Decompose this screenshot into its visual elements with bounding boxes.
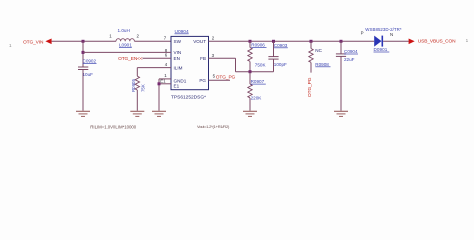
junction FB node (249, 70, 252, 73)
inductor L0901 (116, 28, 134, 48)
svg-text:7: 7 (164, 35, 167, 40)
svg-text:1: 1 (9, 43, 12, 48)
svg-text:L0901: L0901 (119, 43, 132, 48)
wire FB pin path (209, 58, 274, 71)
wire C0902 to ground (82, 70, 84, 111)
junction at input node (82, 40, 85, 43)
svg-text:1: 1 (109, 33, 112, 38)
note Vout formula (197, 124, 230, 129)
pin number 4 ILIM (165, 62, 168, 67)
pin number 7 SW (164, 35, 167, 40)
svg-text:OTG_VIN: OTG_VIN (23, 39, 44, 45)
svg-text:OTG_EN<<: OTG_EN<< (118, 56, 143, 62)
wire L0901 to SW pin (134, 40, 171, 42)
wire E1 pin (159, 83, 171, 85)
port USB_VBUS_CON (409, 39, 457, 45)
resistor R0905 (131, 76, 145, 92)
pin name P of D0901 (361, 31, 364, 36)
junction VOUT rail at C0903 (272, 40, 275, 43)
wire GND1 pin (159, 79, 171, 111)
svg-text:4: 4 (165, 62, 168, 67)
svg-text:C0903: C0903 (274, 43, 288, 48)
svg-text:100pF: 100pF (274, 62, 287, 67)
junction VOUT rail at C0904 (340, 40, 343, 43)
svg-text:N: N (390, 32, 393, 37)
IC U0904 TPS61252DSG boost converter (171, 29, 209, 101)
svg-text:E1: E1 (174, 83, 180, 88)
capacitor C0904 (336, 41, 358, 111)
svg-text:C0902: C0902 (83, 59, 97, 64)
diode D0901 (365, 27, 402, 52)
resistor R0908 (309, 41, 331, 72)
net label OTG_PG at PG pin (216, 74, 236, 80)
wire OTG_VIN to L0901 (52, 40, 116, 42)
svg-text:R0906: R0906 (251, 43, 265, 48)
svg-text:VOUT: VOUT (193, 39, 206, 44)
svg-text:750K: 750K (255, 62, 267, 67)
svg-text:1.0uH: 1.0uH (118, 28, 130, 33)
pin number E1 (160, 79, 166, 84)
svg-text:C0904: C0904 (344, 49, 358, 54)
svg-text:3: 3 (212, 53, 215, 58)
svg-text:2: 2 (137, 33, 140, 38)
wire OTG_EN to EN pin (143, 57, 171, 59)
ground under GND1 (152, 111, 166, 116)
pin number 3 FB (212, 53, 215, 58)
svg-text:D0901: D0901 (374, 47, 388, 52)
ground under C0904 (334, 111, 348, 116)
wire VOUT rail (209, 40, 375, 42)
ground under C0902 (76, 111, 90, 116)
resistor R0907 (248, 72, 266, 111)
svg-text:220K: 220K (251, 96, 263, 101)
junction VOUT rail at R0908 (310, 40, 313, 43)
pin name N of D0901 (390, 32, 393, 37)
svg-text:WSB8523D-2/TR*: WSB8523D-2/TR* (365, 27, 402, 32)
pin number 2 of L0901 (137, 33, 140, 38)
svg-text:SW: SW (174, 39, 182, 44)
svg-text:VIN: VIN (174, 50, 182, 55)
wire ILIM pin to R0905 (137, 68, 171, 77)
svg-text:P: P (361, 31, 364, 36)
net label OTG_EN (118, 56, 143, 62)
wire input node down to C0902 (82, 41, 84, 67)
wire D0901 to output port (383, 40, 409, 42)
wire R0905 to ground (136, 90, 138, 111)
junction at VIN tap (82, 51, 85, 54)
svg-text:10uF: 10uF (83, 72, 94, 77)
junction GND1/E1 (158, 82, 161, 85)
svg-text:FB: FB (200, 56, 206, 61)
svg-text:R0908: R0908 (315, 62, 329, 67)
pin number 5 PG (213, 74, 216, 79)
svg-text:22uF: 22uF (344, 57, 355, 62)
svg-text:PG: PG (199, 78, 206, 83)
zone number 1 right margin (466, 38, 469, 43)
note RILIM formula (90, 124, 136, 129)
pin number 1 GND1 (164, 73, 167, 78)
junction VOUT rail at R0906 (249, 40, 252, 43)
capacitor C0902 (78, 59, 97, 77)
pin number 6 EN (165, 52, 168, 57)
wire PG pin stub (209, 79, 231, 81)
resistor R0906 (248, 41, 267, 71)
svg-text:1: 1 (466, 38, 469, 43)
ground under R0907 (243, 111, 257, 116)
svg-text:OTG_PG: OTG_PG (307, 77, 313, 97)
svg-text:2: 2 (212, 36, 215, 41)
svg-text:R0907: R0907 (251, 79, 265, 84)
pin number 8 VIN (165, 48, 168, 53)
pin number 2 VOUT (212, 36, 215, 41)
port OTG_VIN (23, 39, 52, 46)
ground under R0905 (130, 111, 144, 116)
svg-text:EN: EN (174, 56, 180, 61)
pin number 1 of L0901 (109, 33, 112, 38)
svg-text:TPS61252DSG*: TPS61252DSG* (171, 94, 206, 100)
svg-text:USB_VBUS_CON: USB_VBUS_CON (418, 39, 456, 45)
svg-text:NC: NC (315, 48, 322, 53)
svg-text:75K: 75K (141, 84, 146, 92)
svg-text:ILIM: ILIM (174, 65, 183, 70)
net label OTG_PG vertical (307, 77, 313, 97)
svg-text:R0905: R0905 (131, 79, 136, 92)
svg-text:RILIM=1.0V/ILIM*10000: RILIM=1.0V/ILIM*10000 (90, 124, 136, 129)
svg-text:1: 1 (164, 73, 167, 78)
svg-text:Vout=1.2*(1+R1/R2): Vout=1.2*(1+R1/R2) (197, 124, 230, 129)
svg-text:6: 6 (165, 52, 168, 57)
capacitor C0903 (268, 41, 287, 71)
wire VIN tap to VIN pin (83, 51, 171, 53)
zone number 1 left margin (9, 43, 12, 48)
svg-text:OTG_PG: OTG_PG (216, 74, 236, 80)
